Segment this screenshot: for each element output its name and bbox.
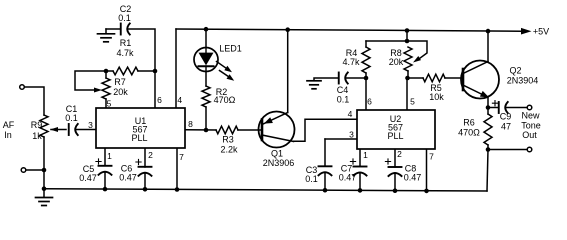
svg-text:5: 5 [107,99,112,109]
svg-text:R3: R3 [222,135,234,145]
svg-text:0.47: 0.47 [79,173,97,183]
svg-text:Tone: Tone [521,121,541,131]
svg-text:2: 2 [148,150,153,160]
svg-text:6: 6 [157,95,162,105]
svg-text:4: 4 [177,95,182,105]
svg-text:2N3906: 2N3906 [263,158,295,168]
svg-text:0.1: 0.1 [118,13,131,23]
svg-text:20k: 20k [389,57,404,67]
svg-text:20k: 20k [113,87,128,97]
svg-text:R6: R6 [463,118,475,128]
svg-text:Q2: Q2 [509,66,521,76]
svg-text:4: 4 [348,109,353,119]
svg-text:New: New [521,111,540,121]
svg-text:2.2k: 2.2k [220,145,238,155]
svg-text:470Ω: 470Ω [214,95,236,105]
svg-text:470Ω: 470Ω [458,128,480,138]
svg-text:R7: R7 [114,77,126,87]
svg-text:47: 47 [501,122,511,132]
svg-text:PLL: PLL [131,133,147,143]
svg-text:0.47: 0.47 [339,173,357,183]
svg-text:4.7k: 4.7k [116,48,134,58]
svg-text:AF: AF [3,120,15,130]
svg-text:1: 1 [363,150,368,160]
svg-text:3: 3 [88,120,93,130]
svg-text:LED1: LED1 [219,44,242,54]
svg-text:5: 5 [410,97,415,107]
svg-text:4.7k: 4.7k [342,57,360,67]
svg-text:7: 7 [179,152,184,162]
svg-text:0.47: 0.47 [119,173,137,183]
svg-text:R1: R1 [120,38,132,48]
svg-text:0.1: 0.1 [305,174,318,184]
svg-text:2N3904: 2N3904 [507,76,539,86]
svg-text:Out: Out [522,130,537,140]
svg-text:0.1: 0.1 [337,95,350,105]
svg-text:8: 8 [188,119,193,129]
svg-text:0.47: 0.47 [404,173,422,183]
svg-text:+5V: +5V [533,27,549,37]
svg-text:Q1: Q1 [271,149,283,159]
svg-text:PLL: PLL [387,131,403,141]
svg-text:R9: R9 [31,120,43,130]
svg-text:2: 2 [397,149,402,159]
svg-text:1: 1 [107,151,112,161]
svg-text:3: 3 [349,130,354,140]
svg-text:0.1: 0.1 [65,113,78,123]
svg-text:1k: 1k [32,131,42,141]
svg-text:10k: 10k [429,92,444,102]
svg-text:7: 7 [429,152,434,162]
svg-text:C9: C9 [500,112,512,122]
svg-text:C4: C4 [337,85,349,95]
svg-text:6: 6 [367,97,372,107]
svg-text:In: In [4,130,12,140]
